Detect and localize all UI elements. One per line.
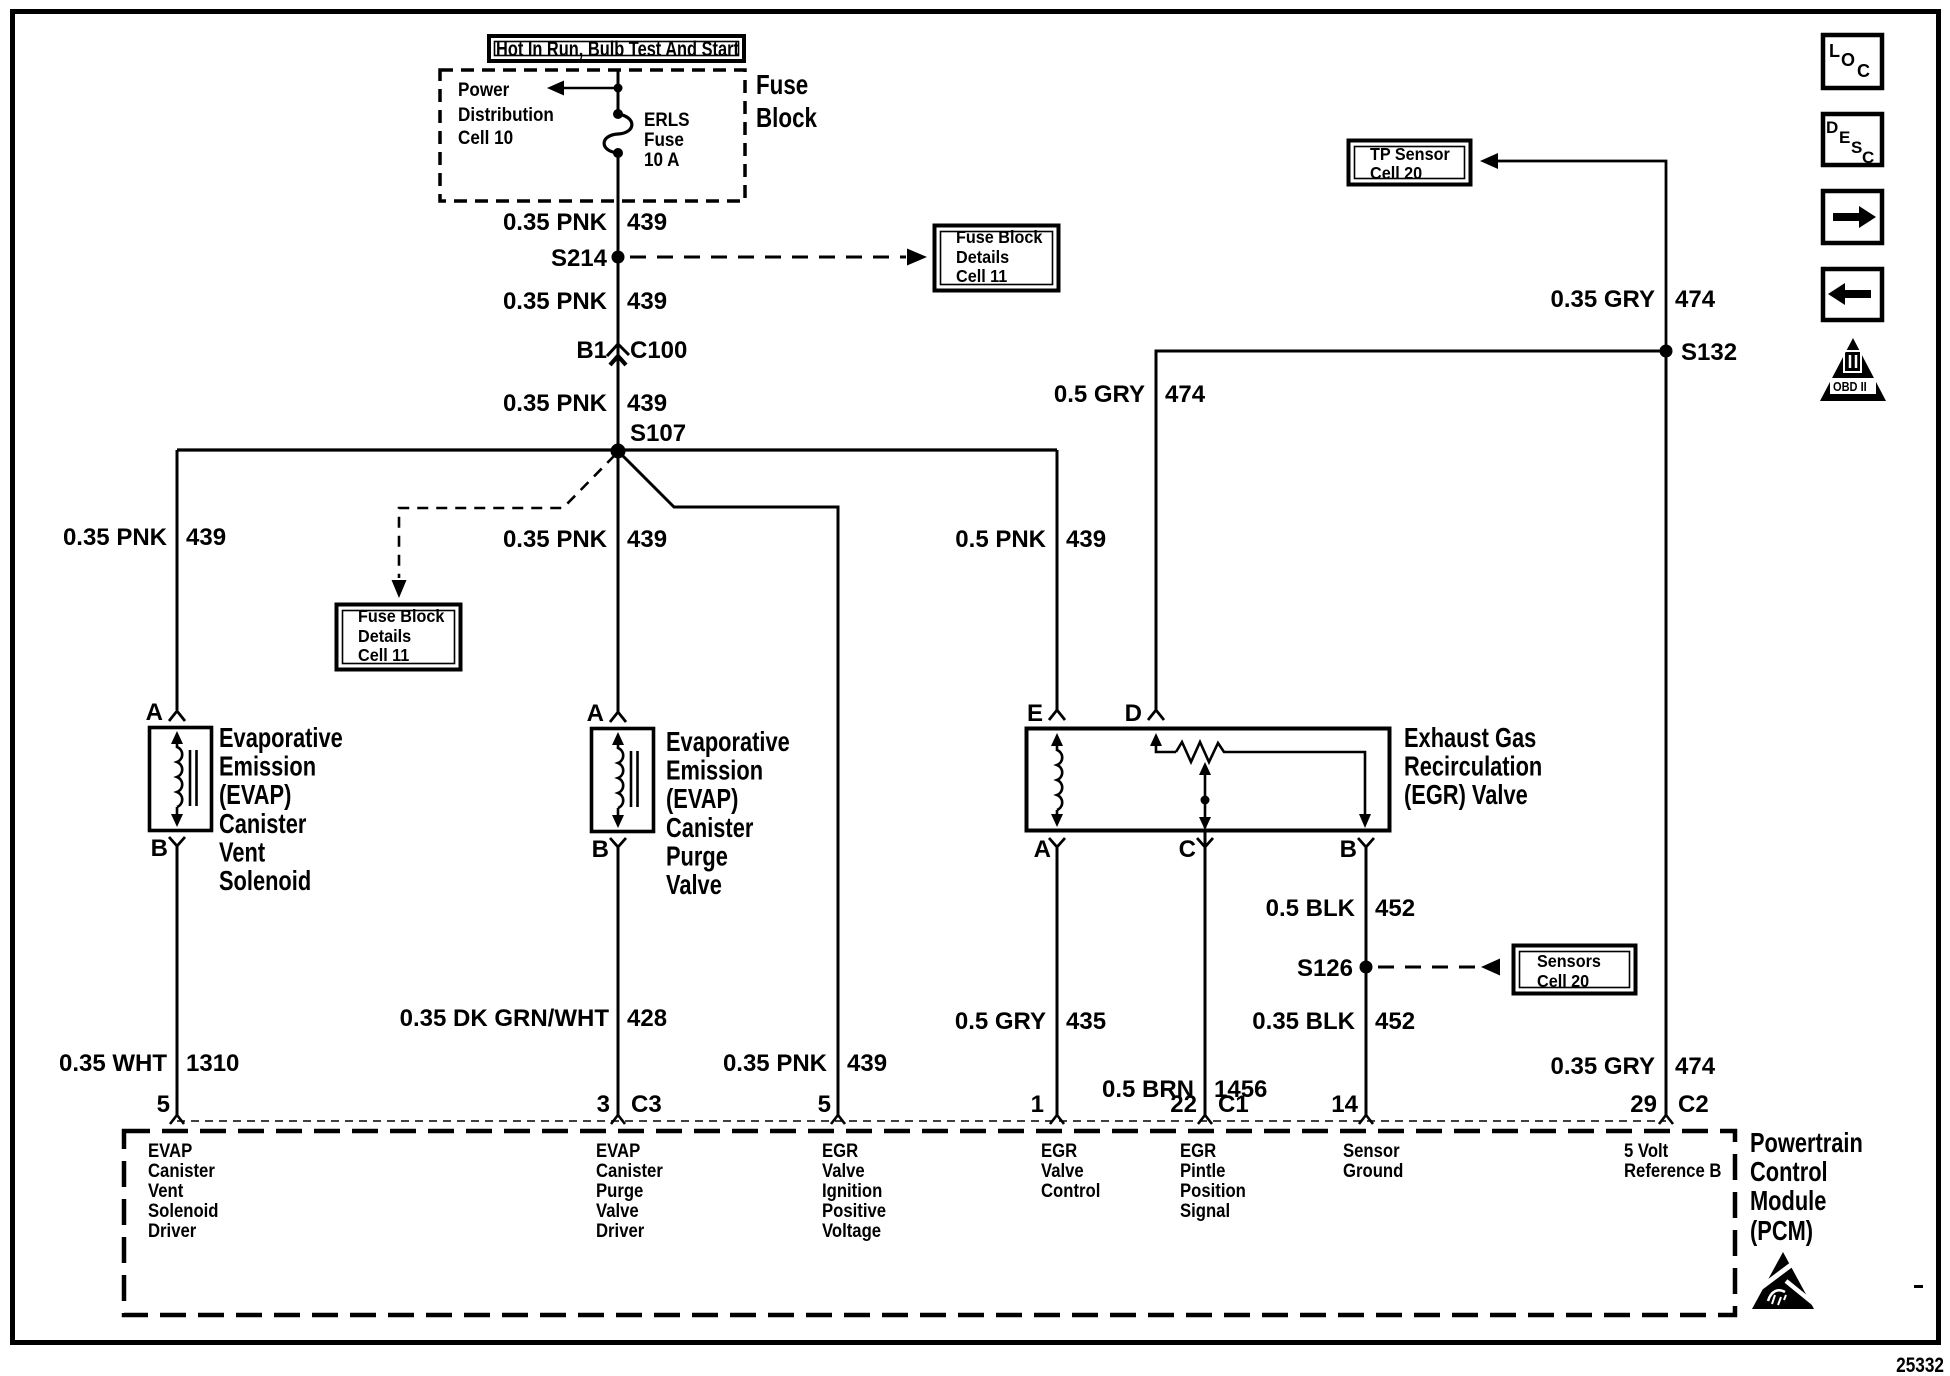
svg-text:Vent: Vent	[148, 1180, 183, 1201]
terminal B of EVAP vent solenoid	[169, 837, 185, 846]
svg-text:Module: Module	[1750, 1185, 1826, 1216]
svg-text:Position: Position	[1180, 1180, 1246, 1201]
wire: EGR ignition voltage branch from S107	[620, 453, 838, 1115]
svg-text:474: 474	[1675, 286, 1716, 313]
splice S214	[612, 251, 625, 264]
wire: fuse feed from Hot In Run into fuse block	[617, 70, 620, 111]
label: Evaporative Emission (EVAP) Canister Vent Solenoid	[219, 722, 343, 896]
arrowhead down into Fuse Block Details box	[392, 580, 407, 598]
pin 5 chevron (EGR ignition voltage)	[831, 1115, 845, 1124]
svg-text:439: 439	[627, 526, 667, 553]
wire: S132 down to PCM pin 29	[1665, 351, 1668, 1115]
svg-text:435: 435	[1066, 1008, 1106, 1035]
svg-text:Cell 20: Cell 20	[1370, 163, 1422, 183]
svg-text:Solenoid: Solenoid	[219, 865, 311, 896]
svg-text:Fuse: Fuse	[756, 70, 808, 101]
svg-text:E: E	[1839, 128, 1850, 147]
reference box: Sensors Cell 20	[1514, 946, 1636, 994]
svg-text:0.35 PNK: 0.35 PNK	[503, 526, 608, 553]
speck artifact near ESD	[1914, 1285, 1923, 1288]
pin 14 chevron (sensor ground)	[1359, 1115, 1373, 1124]
svg-text:O: O	[1841, 50, 1855, 70]
reference box: Fuse Block Details Cell 11 (lower)	[337, 605, 461, 670]
svg-text:474: 474	[1165, 381, 1206, 408]
svg-text:Control: Control	[1041, 1180, 1100, 1201]
label: Fuse Block	[756, 70, 818, 134]
label: Exhaust Gas Recirculation (EGR) Valve	[1404, 722, 1542, 810]
arrow to Power Distribution	[547, 81, 564, 96]
svg-text:Valve: Valve	[1041, 1160, 1084, 1181]
svg-text:Vent: Vent	[219, 837, 266, 868]
svg-text:EGR: EGR	[822, 1140, 858, 1161]
svg-text:OBD II: OBD II	[1833, 379, 1867, 394]
svg-text:Purge: Purge	[666, 841, 728, 872]
wire label 0.5 GRY 435	[955, 1008, 1106, 1035]
svg-text:10 A: 10 A	[644, 149, 679, 170]
wire: branch to Power Distribution	[563, 87, 618, 90]
svg-text:A: A	[146, 699, 163, 726]
dashed reference line from S214 to Fuse Block Details	[630, 256, 906, 259]
svg-text:Block: Block	[756, 103, 818, 134]
svg-text:ERLS: ERLS	[644, 109, 690, 130]
svg-text:E: E	[1027, 700, 1043, 727]
svg-text:B: B	[1340, 836, 1357, 863]
svg-text:TP Sensor: TP Sensor	[1370, 144, 1450, 164]
wire: EGR C down to PCM pin 22	[1204, 831, 1207, 1115]
wire label 0.5 BLK 452	[1266, 895, 1415, 922]
svg-text:0.35 BLK: 0.35 BLK	[1252, 1008, 1355, 1035]
svg-text:Control: Control	[1750, 1156, 1828, 1187]
splice S132	[1660, 345, 1673, 358]
svg-text:Canister: Canister	[148, 1160, 215, 1181]
svg-text:14: 14	[1331, 1091, 1358, 1118]
svg-text:5: 5	[157, 1091, 170, 1118]
terminal E of EGR valve	[1049, 710, 1065, 720]
svg-text:Ignition: Ignition	[822, 1180, 882, 1201]
svg-text:22: 22	[1170, 1091, 1197, 1118]
svg-text:Sensors: Sensors	[1537, 951, 1601, 971]
pin 1 chevron (EGR valve control)	[1050, 1115, 1064, 1124]
pin 5 chevron (EVAP vent driver)	[170, 1115, 184, 1124]
svg-text:Valve: Valve	[822, 1160, 865, 1181]
wire label 0.35 PNK 439 (above S107)	[503, 390, 667, 417]
svg-text:Cell 20: Cell 20	[1537, 971, 1589, 991]
svg-text:S126: S126	[1297, 955, 1353, 982]
wire label 0.35 GRY 474 (to pin 29)	[1551, 1053, 1716, 1080]
pin 22 C1 chevron (EGR pintle position)	[1198, 1115, 1212, 1124]
terminal B of EVAP purge valve	[610, 838, 626, 847]
pin 29 C2 chevron (5 volt reference B)	[1659, 1115, 1673, 1124]
svg-text:Cell 11: Cell 11	[358, 645, 410, 665]
arrowhead into TP Sensor box	[1480, 153, 1498, 169]
svg-text:0.35 PNK: 0.35 PNK	[503, 209, 608, 236]
svg-text:Details: Details	[956, 247, 1009, 267]
svg-text:439: 439	[186, 524, 226, 551]
svg-text:0.35 WHT: 0.35 WHT	[59, 1050, 167, 1077]
svg-text:Pintle: Pintle	[1180, 1160, 1226, 1181]
wire: middle branch S107 down to EVAP purge valve	[617, 451, 620, 714]
svg-text:Cell 10: Cell 10	[458, 127, 513, 148]
svg-text:1: 1	[1031, 1091, 1044, 1118]
EGR valve: Exhaust Gas Recirculation (EGR) Valve	[1027, 729, 1390, 831]
svg-text:(EGR) Valve: (EGR) Valve	[1404, 780, 1528, 811]
svg-text:452: 452	[1375, 1008, 1415, 1035]
label: Powertrain Control Module (PCM)	[1750, 1127, 1863, 1246]
wire label 0.35 PNK 439 (above C100)	[503, 288, 667, 315]
svg-text:0.35 GRY: 0.35 GRY	[1551, 286, 1656, 313]
svg-text:452: 452	[1375, 895, 1415, 922]
svg-text:Power: Power	[458, 79, 509, 100]
wire label 0.35 PNK 439 (middle branch)	[503, 526, 667, 553]
wire: EVAP vent solenoid B down to PCM pin 5	[176, 846, 179, 1115]
wire: EVAP purge valve B down to PCM pin 3	[617, 847, 620, 1115]
svg-text:Canister: Canister	[219, 808, 307, 839]
svg-text:Valve: Valve	[596, 1200, 639, 1221]
svg-text:Fuse Block: Fuse Block	[956, 227, 1043, 247]
svg-text:439: 439	[1066, 526, 1106, 553]
label: Power Distribution Cell 10	[458, 79, 554, 148]
terminal A of EGR valve	[1049, 838, 1065, 847]
svg-text:Recirculation: Recirculation	[1404, 751, 1542, 782]
svg-text:C: C	[1857, 61, 1870, 81]
svg-text:EVAP: EVAP	[596, 1140, 640, 1161]
reference box: TP Sensor Cell 20	[1349, 141, 1471, 185]
label: ERLS Fuse 10 A	[644, 109, 690, 170]
svg-text:0.5 GRY: 0.5 GRY	[955, 1008, 1046, 1035]
svg-text:439: 439	[847, 1050, 887, 1077]
svg-text:Solenoid: Solenoid	[148, 1200, 219, 1221]
svg-text:EGR: EGR	[1180, 1140, 1216, 1161]
EGR pintle position potentiometer (D to B)	[1156, 739, 1176, 752]
label B1 / C100	[576, 337, 687, 364]
terminal A of EVAP purge valve	[610, 712, 626, 722]
svg-text:0.5 GRY: 0.5 GRY	[1054, 381, 1145, 408]
svg-text:0.35 PNK: 0.35 PNK	[503, 390, 608, 417]
wire label 0.5 BRN 1456	[1102, 1076, 1267, 1103]
svg-text:B: B	[151, 835, 168, 862]
wire label 0.35 PNK 439 (above S214)	[503, 209, 667, 236]
splice S107	[611, 444, 626, 459]
svg-text:Evaporative: Evaporative	[219, 722, 343, 753]
fuse ERLS 10 A symbol	[604, 109, 632, 158]
reference box: Fuse Block Details Cell 11 (upper)	[935, 226, 1059, 291]
wire label 0.35 BLK 452	[1252, 1008, 1415, 1035]
svg-text:Details: Details	[358, 626, 411, 646]
svg-text:Purge: Purge	[596, 1180, 643, 1201]
svg-text:474: 474	[1675, 1053, 1716, 1080]
svg-text:(EVAP): (EVAP)	[666, 784, 738, 815]
icon: LOC navigation button	[1823, 35, 1882, 88]
icon: back arrow button	[1823, 269, 1882, 320]
svg-text:Sensor: Sensor	[1343, 1140, 1400, 1161]
dashed reference line from Sensors box to S126	[1378, 966, 1480, 969]
svg-text:C: C	[1179, 836, 1196, 863]
solenoid: EVAP Canister Purge Valve	[592, 729, 654, 832]
wire label 0.35 PNK 439 (EGR ignition feed)	[723, 1050, 887, 1077]
wire: S214 down to connector C100	[617, 257, 620, 451]
svg-text:Emission: Emission	[219, 751, 316, 782]
icon: DESC navigation button	[1823, 114, 1882, 167]
svg-text:Ground: Ground	[1343, 1160, 1403, 1181]
wire: right branch to EGR solenoid terminal E	[1056, 450, 1059, 710]
svg-text:29: 29	[1630, 1091, 1657, 1118]
pin label 22 / C1	[1170, 1091, 1248, 1118]
terminal D of EGR valve	[1148, 710, 1164, 720]
wire label 0.5 PNK 439 (EGR E branch)	[955, 526, 1106, 553]
svg-text:Hot In Run, Bulb Test And Star: Hot In Run, Bulb Test And Start	[496, 37, 740, 60]
splice S126	[1360, 961, 1373, 974]
svg-text:0.35 PNK: 0.35 PNK	[63, 524, 168, 551]
icon: OBD II warning triangle	[1820, 338, 1886, 401]
svg-text:L: L	[1829, 41, 1840, 61]
svg-text:439: 439	[627, 390, 667, 417]
svg-text:Powertrain: Powertrain	[1750, 1127, 1863, 1158]
wire: left branch down to EVAP vent solenoid	[176, 450, 179, 710]
terminal A of EVAP vent solenoid	[169, 711, 185, 721]
svg-text:5: 5	[818, 1091, 831, 1118]
terminal C of EGR valve	[1197, 838, 1213, 847]
svg-text:(PCM): (PCM)	[1750, 1215, 1813, 1246]
potentiometer wiper to terminal C	[1204, 768, 1207, 828]
svg-text:1310: 1310	[186, 1050, 239, 1077]
svg-text:D: D	[1125, 700, 1142, 727]
pin function label: 5 Volt Reference B	[1624, 1140, 1722, 1181]
svg-text:25332: 25332	[1896, 1355, 1944, 1376]
svg-text:439: 439	[627, 209, 667, 236]
svg-text:S: S	[1851, 138, 1862, 157]
svg-text:0.35 GRY: 0.35 GRY	[1551, 1053, 1656, 1080]
pin label 29 / C2	[1630, 1091, 1708, 1118]
PCM dashed boundary	[124, 1131, 1735, 1315]
terminal B of EGR valve	[1358, 838, 1374, 847]
dashed branch from S107 to Fuse Block Details (lower)	[399, 455, 615, 578]
svg-text:0.35 DK GRN/WHT: 0.35 DK GRN/WHT	[400, 1005, 610, 1032]
svg-text:C3: C3	[631, 1091, 662, 1118]
PCM connector face (fine dashed line)	[177, 1120, 1666, 1122]
svg-text:Emission: Emission	[666, 755, 763, 786]
wire: EGR terminal D up and across to S132	[1156, 351, 1666, 710]
svg-text:Exhaust Gas: Exhaust Gas	[1404, 722, 1536, 753]
svg-text:439: 439	[627, 288, 667, 315]
svg-text:S107: S107	[630, 420, 686, 447]
svg-text:Valve: Valve	[666, 869, 722, 900]
pin function label: EGR Valve Control	[1041, 1140, 1100, 1201]
wire: EGR B down to PCM pin 14	[1365, 847, 1368, 1115]
svg-text:C2: C2	[1678, 1091, 1709, 1118]
svg-text:Driver: Driver	[148, 1220, 196, 1241]
wire label 0.5 GRY 474	[1054, 381, 1206, 408]
wire: S132 up to TP Sensor reference	[1497, 161, 1666, 351]
svg-text:A: A	[587, 700, 604, 727]
svg-text:Distribution: Distribution	[458, 104, 554, 125]
pin function label: EVAP Canister Purge Valve Driver	[596, 1140, 663, 1241]
svg-text:S132: S132	[1681, 339, 1737, 366]
svg-text:0.35 PNK: 0.35 PNK	[503, 288, 608, 315]
label: Evaporative Emission (EVAP) Canister Purge Valve	[666, 726, 790, 900]
wire label 0.35 DK GRN/WHT 428	[400, 1005, 667, 1032]
fuse block dashed boundary	[440, 70, 745, 201]
svg-text:5 Volt: 5 Volt	[1624, 1140, 1668, 1161]
svg-text:Signal: Signal	[1180, 1200, 1230, 1221]
svg-text:3: 3	[597, 1091, 610, 1118]
svg-text:D: D	[1826, 118, 1838, 137]
svg-text:Positive: Positive	[822, 1200, 886, 1221]
ESD sensitive device symbol	[1747, 1252, 1818, 1309]
svg-text:EVAP: EVAP	[148, 1140, 192, 1161]
svg-text:C: C	[1862, 148, 1874, 167]
pin function label: EGR Valve Ignition Positive Voltage	[822, 1140, 886, 1241]
svg-text:S214: S214	[551, 245, 608, 272]
svg-text:Canister: Canister	[666, 812, 754, 843]
svg-text:A: A	[1034, 836, 1051, 863]
svg-text:Reference B: Reference B	[1624, 1160, 1722, 1181]
pin function label: EVAP Canister Vent Solenoid Driver	[148, 1140, 219, 1241]
wire label 0.35 PNK 439 (left branch)	[63, 524, 226, 551]
svg-text:Voltage: Voltage	[822, 1220, 881, 1241]
arrowhead into Fuse Block Details box	[907, 249, 927, 266]
junction dot at fuse feed	[614, 84, 623, 93]
svg-text:0.5 PNK: 0.5 PNK	[955, 526, 1046, 553]
svg-text:Fuse Block: Fuse Block	[358, 606, 445, 626]
svg-text:C100: C100	[630, 337, 687, 364]
svg-text:EGR: EGR	[1041, 1140, 1077, 1161]
svg-text:428: 428	[627, 1005, 667, 1032]
svg-text:C1: C1	[1218, 1091, 1249, 1118]
arrowhead pointing at S126	[1481, 959, 1500, 976]
wire: EGR A down to PCM pin 1	[1056, 847, 1059, 1115]
pin function label: Sensor Ground	[1343, 1140, 1403, 1181]
svg-text:Canister: Canister	[596, 1160, 663, 1181]
svg-text:Cell 11: Cell 11	[956, 266, 1008, 286]
svg-text:B: B	[592, 836, 609, 863]
svg-text:(EVAP): (EVAP)	[219, 780, 291, 811]
EGR solenoid coil between E and A	[1056, 739, 1059, 820]
svg-text:Fuse: Fuse	[644, 129, 684, 150]
label box: Hot In Run, Bulb Test And Start	[489, 36, 744, 61]
pin 3 C3 chevron (EVAP purge driver)	[611, 1115, 625, 1124]
svg-text:B1: B1	[576, 337, 607, 364]
main horizontal bus wire through S107	[177, 448, 1057, 451]
svg-text:Evaporative: Evaporative	[666, 726, 790, 757]
wire: fuse output down to S214	[617, 153, 620, 257]
pin function label: EGR Pintle Position Signal	[1180, 1140, 1246, 1221]
wire label 0.35 GRY 474 (above S132)	[1551, 286, 1716, 313]
svg-text:0.5 BLK: 0.5 BLK	[1266, 895, 1356, 922]
icon: forward arrow button	[1823, 191, 1882, 243]
connector C100 pin B1 symbol	[607, 344, 629, 365]
wire label 0.35 WHT 1310	[59, 1050, 239, 1077]
svg-text:0.35 PNK: 0.35 PNK	[723, 1050, 828, 1077]
solenoid: EVAP Canister Vent Solenoid	[150, 728, 212, 831]
pin label 3 / C3	[597, 1091, 662, 1118]
svg-text:Driver: Driver	[596, 1220, 644, 1241]
